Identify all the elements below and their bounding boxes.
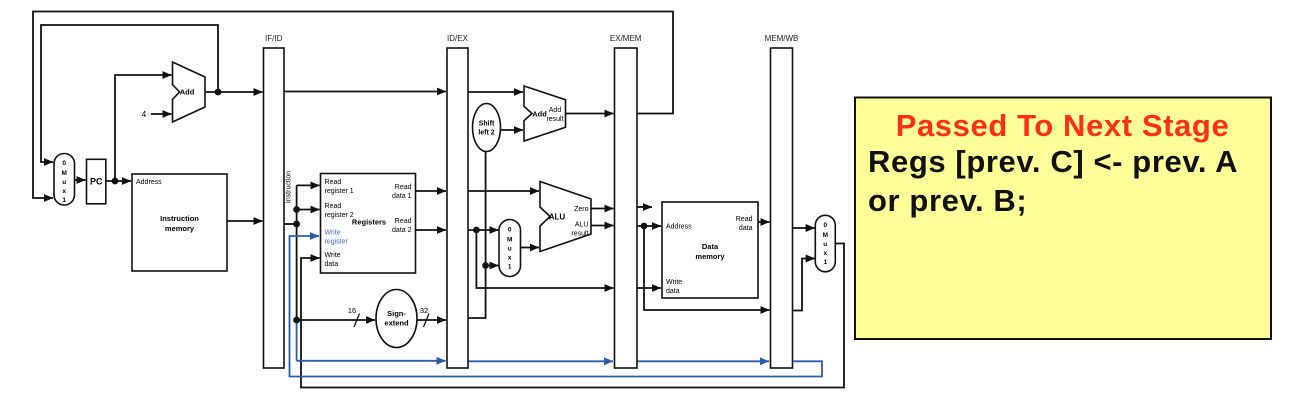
node sign-extend riser junction [482, 262, 489, 269]
svg-text:Write: Write [666, 279, 682, 286]
svg-text:Registers: Registers [352, 218, 386, 227]
svg-text:0: 0 [62, 160, 66, 167]
svg-text:Address: Address [666, 224, 692, 231]
mux M1 (PC source) [54, 154, 75, 206]
wire Mux to PC [75, 179, 86, 181]
svg-text:M: M [823, 232, 828, 239]
wire ALU result EX/MEM to Data memory Address [637, 225, 661, 227]
svg-text:result: result [571, 231, 588, 238]
bus slash 32 [424, 314, 430, 328]
adder Add (branch target) [524, 86, 566, 141]
wire Sign-extend to ID/EX [417, 319, 446, 321]
svg-text:Write: Write [325, 252, 341, 259]
wire to Sign-extend [297, 319, 375, 321]
svg-text:data 1: data 1 [392, 193, 412, 200]
wire blue return loop to Write register [290, 236, 823, 377]
instruction memory box [132, 174, 227, 271]
wire PC+4 ID/EX to branch Add [468, 91, 523, 93]
wire PC up to Add input [115, 75, 172, 181]
svg-text:memory: memory [165, 224, 195, 233]
pipeline register MEM/WB [771, 48, 793, 368]
wire instruction bus from IF/ID [284, 223, 297, 225]
svg-text:data 2: data 2 [392, 227, 412, 234]
svg-text:Write: Write [325, 230, 341, 237]
svg-text:data: data [739, 225, 753, 232]
wire Read data to MEM/WB [758, 221, 770, 223]
wire blue forward to EX/MEM [468, 360, 613, 362]
node read data 2 junction [473, 227, 480, 234]
svg-text:4: 4 [142, 110, 147, 119]
svg-text:Add: Add [549, 107, 562, 114]
svg-text:Add: Add [532, 110, 547, 119]
wire ALU result to EX/MEM [591, 225, 614, 227]
svg-text:1: 1 [62, 197, 66, 204]
svg-text:M: M [507, 237, 512, 244]
svg-text:register: register [325, 239, 349, 246]
svg-text:ALU: ALU [575, 222, 589, 229]
svg-text:EX/MEM: EX/MEM [610, 34, 642, 43]
wire ALU mux to ALU [521, 247, 540, 249]
svg-text:u: u [508, 246, 512, 253]
svg-text:PC: PC [90, 177, 103, 187]
svg-text:Address: Address [136, 179, 162, 186]
wire ALU result MEM/WB to WB mux input 1 [793, 259, 815, 311]
svg-text:ALU: ALU [549, 213, 566, 222]
svg-text:Shift: Shift [479, 121, 495, 128]
svg-text:Add: Add [180, 88, 195, 97]
svg-text:Read: Read [325, 179, 342, 186]
svg-text:left 2: left 2 [478, 130, 494, 137]
svg-text:0: 0 [823, 222, 827, 229]
node PC+4 junction [215, 89, 222, 96]
wire sign-extend value ID/EX to riser [468, 152, 486, 319]
svg-text:16: 16 [348, 306, 356, 315]
wire PC+4 IF/ID to ID/EX [284, 91, 446, 93]
wire WB mux output back to Registers Write data [301, 244, 844, 388]
svg-text:1: 1 [508, 264, 512, 271]
svg-text:memory: memory [695, 252, 725, 261]
svg-text:Instruction: Instruction [160, 214, 199, 223]
svg-text:x: x [508, 255, 512, 262]
wire riser branch to ALU mux input 1 [486, 265, 499, 267]
wire ALU Zero to EX/MEM [591, 208, 614, 210]
svg-text:or prev. B;: or prev. B; [868, 183, 1027, 218]
wire branch target loop EX/MEM to Mux input 1 [33, 12, 673, 199]
wire write data branch down to EX/MEM [476, 230, 613, 288]
svg-text:0: 0 [508, 227, 512, 234]
node instruction sign-extend junction [293, 317, 300, 324]
pipeline register ID/EX [447, 48, 468, 368]
wire blue write register number down [296, 320, 298, 360]
pipeline register EX/MEM [615, 48, 638, 368]
wire blue forward to ID/EX [297, 360, 446, 362]
node ALU result junction MEM [641, 223, 648, 230]
svg-text:Read: Read [736, 216, 753, 223]
adder Add (PC+4) [173, 62, 206, 122]
registers box [321, 174, 416, 274]
wire Read data 2 to ALU mux input 0 [468, 229, 499, 231]
svg-text:Zero: Zero [574, 206, 589, 213]
svg-text:IF/ID: IF/ID [265, 34, 283, 43]
mux M3 (write-back) [815, 215, 835, 271]
node instruction read register 2 junction [293, 206, 300, 213]
svg-text:ID/EX: ID/EX [447, 34, 469, 43]
wire Zero stub out of EX/MEM [637, 206, 652, 208]
svg-text:data: data [666, 288, 680, 295]
wire Instruction memory to IF/ID [227, 220, 263, 222]
shift left 2 ellipse [473, 104, 501, 152]
wire PC to Instruction memory Address [106, 180, 131, 182]
note box [855, 98, 1271, 340]
wire Add result to IF/ID [205, 91, 263, 93]
wire Read data 1 to ALU [468, 190, 539, 192]
svg-text:register 2: register 2 [325, 212, 354, 219]
node PC output junction [112, 178, 119, 185]
svg-text:Regs [prev. C] <- prev. A: Regs [prev. C] <- prev. A [868, 144, 1238, 179]
svg-text:register 1: register 1 [325, 188, 354, 195]
svg-text:u: u [823, 241, 827, 248]
PC [87, 159, 106, 204]
svg-text:1: 1 [823, 259, 827, 266]
ALU [540, 182, 591, 252]
pipeline register IF/ID [264, 48, 285, 368]
wire Read data 1 to ID/EX [416, 190, 447, 192]
svg-text:Passed To Next Stage: Passed To Next Stage [896, 108, 1230, 143]
sign-extend ellipse [376, 290, 417, 348]
node instruction incoming junction [293, 221, 300, 228]
wire instruction vertical [296, 185, 298, 320]
bus slash 16 [354, 314, 360, 328]
svg-text:Instruction: Instruction [286, 171, 293, 203]
svg-text:Read: Read [325, 203, 342, 210]
wire write data EX/MEM to Data memory [637, 287, 661, 289]
data memory box [662, 202, 758, 298]
wire branch Add result to EX/MEM [566, 113, 614, 115]
wire Read data 2 to ID/EX [416, 229, 447, 231]
wire Read data MEM/WB to WB mux input 0 [793, 227, 815, 229]
svg-text:data: data [325, 261, 339, 268]
svg-text:x: x [823, 250, 827, 257]
wire Shift left 2 to branch Add [501, 129, 524, 131]
wire PC+4 loop to Mux input 0 [41, 25, 218, 162]
wire ALU result down to MEM/WB [644, 226, 770, 310]
wire constant 4 to Add [151, 113, 172, 115]
svg-text:Data: Data [702, 242, 719, 251]
svg-text:Read: Read [395, 184, 412, 191]
svg-text:32: 32 [420, 306, 428, 315]
svg-text:u: u [62, 179, 66, 186]
svg-text:extend: extend [384, 319, 409, 328]
svg-text:Sign-: Sign- [387, 309, 406, 318]
svg-text:Read: Read [395, 218, 412, 225]
wire blue forward to MEM/WB [637, 360, 769, 362]
wire to Read register 2 [297, 209, 320, 211]
wire to Read register 1 [297, 184, 320, 186]
svg-text:x: x [62, 188, 66, 195]
mux M2 (ALU operand) [499, 220, 521, 277]
svg-text:M: M [61, 170, 66, 177]
svg-text:MEM/WB: MEM/WB [765, 34, 799, 43]
svg-text:result: result [546, 116, 563, 123]
